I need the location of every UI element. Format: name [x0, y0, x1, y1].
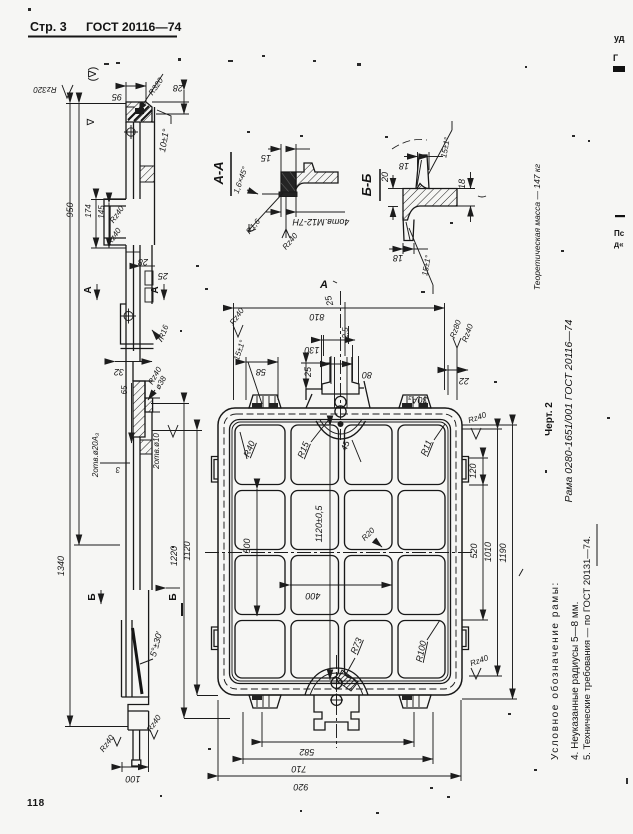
left lower tab: [212, 627, 219, 650]
lower-left block: [121, 304, 154, 349]
mid wall hatched patch: [140, 166, 155, 182]
svg-text:А: А: [319, 279, 328, 291]
svg-text:2отв.ø20А₃: 2отв.ø20А₃: [91, 433, 100, 478]
svg-text:4. Неуказанные радиусы 5—8 мм.: 4. Неуказанные радиусы 5—8 мм.: [570, 602, 581, 760]
frame outer contour: [218, 408, 462, 695]
svg-text:А-А: А-А: [211, 161, 226, 185]
header: Стр. 3 ГОСТ 20116-74: [28, 20, 182, 37]
svg-text:20: 20: [380, 172, 390, 183]
upper body: [126, 107, 155, 199]
dim 520 right: [482, 485, 484, 620]
bottom flange dark: [279, 192, 297, 197]
section body: vertical bar dark: [281, 172, 296, 192]
dim 710 bottom: [243, 758, 433, 760]
dim 18 top: [404, 156, 418, 158]
svg-text:∇: ∇: [86, 118, 97, 126]
svg-text:5. Технические требования — п: 5. Технические требования — по ГОСТ 2013…: [582, 536, 593, 760]
svg-text:3: 3: [115, 465, 120, 474]
right side tab: [462, 457, 469, 483]
dim 810 top: [234, 307, 445, 309]
section B marks at frame left: [166, 587, 180, 589]
svg-text:Б-Б: Б-Б: [359, 174, 374, 197]
bottom boss tab: [314, 695, 359, 730]
svg-text:15: 15: [260, 153, 271, 163]
boss right block hatched: [145, 398, 153, 412]
svg-text:80: 80: [362, 370, 372, 380]
dim 130: [322, 339, 356, 341]
svg-text:А: А: [83, 286, 94, 293]
dim 18 bottom: [389, 248, 403, 250]
svg-text:174: 174: [84, 204, 93, 218]
dim 500 inner: [256, 489, 258, 616]
svg-text:28: 28: [138, 257, 149, 267]
dim 25 mid: [140, 265, 155, 267]
dim 58: [246, 361, 278, 363]
bottom right ear: [399, 695, 431, 708]
grid cells 4x4: [235, 425, 445, 678]
upper stem outline: [416, 155, 429, 189]
top boss inner dome R15: [316, 421, 366, 439]
svg-text:118: 118: [27, 798, 45, 809]
svg-text:810: 810: [309, 312, 324, 322]
dim 1190 right: [512, 425, 514, 699]
svg-text:30А₃: 30А₃: [408, 395, 428, 405]
dim 400 inner: [290, 584, 392, 586]
waist: [126, 351, 140, 362]
svg-text:Б: Б: [87, 593, 98, 600]
left lower stem: [403, 217, 414, 241]
left side tab: [212, 457, 219, 483]
tapered bottom zone: [122, 590, 149, 697]
frame dashed inset line: [224, 414, 456, 689]
svg-text:130: 130: [304, 345, 319, 355]
svg-text:120: 120: [468, 463, 478, 478]
svg-text:95: 95: [111, 92, 122, 102]
svg-text:400: 400: [305, 591, 320, 601]
svg-text:500: 500: [242, 538, 252, 553]
svg-text:А: А: [150, 286, 161, 293]
left flange block: [104, 199, 126, 245]
frame inner contour double line: [230, 420, 451, 684]
dim 950: [78, 103, 80, 545]
vertical centerline bottom boss: [336, 655, 338, 748]
svg-text:58: 58: [256, 367, 266, 377]
svg-text:1120: 1120: [182, 541, 192, 560]
top boss neck: [322, 357, 359, 394]
left corner ear: [249, 395, 281, 408]
bottom boss circles: [331, 678, 342, 689]
dim 25 left of boss: [305, 363, 307, 389]
svg-text:Рама 0280-1651/001 ГОСТ 20116—: Рама 0280-1651/001 ГОСТ 20116—74: [563, 319, 575, 502]
dim 582 bottom: [262, 741, 414, 743]
bottom left ear: [249, 695, 281, 708]
dim 65: [131, 383, 133, 443]
right edge fragments: [613, 33, 628, 784]
svg-text:1120±0,5: 1120±0,5: [314, 505, 324, 543]
dim 1120 left: [196, 430, 198, 695]
dim 1340: [69, 103, 71, 726]
svg-text:25: 25: [303, 366, 313, 378]
svg-text:Стр. 3: Стр. 3: [30, 20, 67, 34]
svg-text:Условное обозначение рамы:: Условное обозначение рамы:: [549, 581, 561, 760]
top boss base on frame edge: [306, 381, 370, 408]
svg-text:920: 920: [293, 782, 308, 792]
svg-text:710: 710: [291, 764, 306, 774]
dim 22 right: [448, 369, 468, 371]
svg-text:уд: уд: [614, 33, 625, 43]
svg-text:25: 25: [157, 271, 169, 281]
profile top dims: [126, 85, 146, 87]
boss region: [126, 362, 153, 437]
vertical centerline top boss: [340, 291, 342, 440]
thick taper line: [133, 628, 143, 694]
dim 920 bottom: [218, 775, 461, 777]
svg-text:4отв.М12-7Н: 4отв.М12-7Н: [292, 217, 349, 227]
dim 4otv M12-7H: [266, 211, 281, 213]
bottom stem: [132, 730, 141, 766]
svg-text:65: 65: [120, 385, 129, 394]
lower body: [126, 412, 152, 590]
dim 1010 right: [497, 429, 499, 676]
svg-text:32: 32: [114, 367, 124, 377]
roughness marks top: [233, 325, 243, 337]
svg-text:д«: д«: [614, 240, 624, 249]
svg-text:(∇): (∇): [87, 67, 99, 82]
svg-text:Пс: Пс: [614, 229, 625, 238]
svg-text:Г: Г: [613, 53, 618, 63]
svg-text:1190: 1190: [498, 543, 508, 562]
svg-text:2отв.ø10: 2отв.ø10: [152, 433, 161, 470]
right corner ear: [399, 395, 431, 408]
leader R1,6: [248, 193, 283, 231]
svg-text:28: 28: [173, 83, 184, 93]
dim 1220 left: [183, 403, 185, 718]
svg-text:1010: 1010: [483, 542, 493, 562]
dim 100 bottom: [122, 766, 149, 768]
hatched patch below boss: [140, 440, 152, 454]
foot block: [122, 697, 149, 730]
dim 1120+-0,5 inner: [329, 426, 331, 680]
svg-text:1340: 1340: [56, 556, 66, 576]
flange + left block hatched: [403, 184, 457, 221]
svg-text:1220: 1220: [169, 546, 179, 566]
svg-text:Б: Б: [168, 593, 179, 600]
right lower tab: [462, 627, 469, 650]
small bosses right: [145, 271, 153, 285]
dim 80: [331, 363, 353, 365]
dim 18 right: [470, 172, 472, 189]
horizontal centerline: [205, 552, 475, 554]
svg-text:18: 18: [457, 179, 467, 189]
svg-text:520: 520: [469, 543, 479, 558]
svg-text:18: 18: [393, 253, 403, 263]
svg-text:18: 18: [399, 161, 409, 171]
Rz40 below: [285, 196, 287, 238]
svg-text:582: 582: [299, 747, 314, 757]
dim 32: [115, 361, 152, 363]
dims 174 145: [95, 199, 97, 248]
svg-text:Rz320: Rz320: [33, 85, 57, 94]
bolt mark upper: [127, 128, 135, 136]
dim 28 top right: [183, 90, 185, 114]
top flange section hatched: [126, 102, 152, 122]
bolt mark lower: [124, 312, 133, 321]
svg-text:22: 22: [459, 376, 470, 386]
right leg hatched: [296, 163, 338, 189]
dim 20 left: [392, 175, 394, 189]
dim 120 right: [482, 458, 484, 485]
boss wall hatched: [133, 381, 145, 437]
svg-text:145: 145: [97, 205, 106, 219]
body below flange: [126, 199, 155, 351]
dim 28 mid: [126, 251, 140, 253]
svg-text:Теоретическая масса — 147 кг: Теоретическая масса — 147 кг: [532, 164, 542, 290]
top boss circles: [335, 396, 346, 407]
dim 15: [268, 148, 281, 150]
svg-text:100: 100: [125, 774, 140, 784]
svg-text:Черт. 2: Черт. 2: [544, 402, 555, 436]
bottom boss hatch wedge: [337, 670, 358, 691]
bottom boss dome: [305, 668, 368, 695]
svg-text:ГОСТ 20116—74: ГОСТ 20116—74: [86, 20, 182, 34]
